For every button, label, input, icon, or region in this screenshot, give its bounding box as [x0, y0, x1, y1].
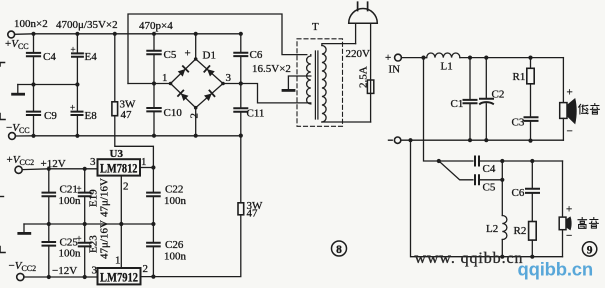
- svg-text:C11: C11: [247, 108, 265, 120]
- capacitor C25: [48, 224, 50, 242]
- secondary center tap wire: [288, 76, 310, 90]
- wire selector to C5: [439, 161, 473, 180]
- svg-text:R1: R1: [513, 71, 526, 83]
- label D1 and +: [185, 48, 216, 62]
- capacitor C4: [475, 157, 479, 166]
- svg-text:C1: C1: [451, 98, 464, 110]
- svg-text:www. qqibb.cn: www. qqibb.cn: [415, 250, 524, 267]
- AC plug: [349, 9, 378, 24]
- svg-text:C4: C4: [483, 163, 496, 175]
- svg-text:+: +: [566, 204, 572, 216]
- speaker woofer (bass): [562, 58, 564, 103]
- terminal +Vcc: [8, 31, 15, 38]
- capacitor C26: [152, 224, 154, 243]
- svg-text:E8: E8: [85, 110, 98, 122]
- label treble speaker: [578, 218, 587, 229]
- bridge bottom lead: [195, 108, 197, 136]
- scan edge artifacts left margin: [0, 63, 5, 67]
- wire tweeter top rail: [479, 160, 563, 162]
- watermark blue: [518, 259, 593, 280]
- svg-text:+: +: [567, 87, 573, 99]
- wire LM7812 output pin1: [140, 167, 153, 169]
- svg-text:−12V: −12V: [52, 265, 77, 277]
- watermark dark: [415, 250, 524, 267]
- bridge pin labels 1 2 3: [162, 72, 232, 119]
- svg-text:4700μ/35V×2: 4700μ/35V×2: [56, 19, 118, 31]
- pin labels LM7812: [90, 156, 147, 193]
- svg-text:E4: E4: [85, 51, 98, 63]
- svg-text:D1: D1: [203, 50, 216, 62]
- wire AC input upper (secondary top to bridge node 1): [128, 14, 307, 84]
- svg-text:1: 1: [141, 156, 147, 168]
- node dot bridge top: [194, 32, 198, 36]
- wire LM7912 input pin2: [141, 215, 241, 277]
- capacitor E8: [76, 85, 78, 112]
- wire plug left lead: [355, 23, 357, 43]
- speaker tweeter (treble): [562, 161, 564, 217]
- label 100n x2: [14, 18, 48, 30]
- svg-text:−: −: [567, 126, 573, 138]
- wire LM7812 gnd pin2 / LM7912 gnd pin1: [120, 176, 122, 268]
- svg-text:16.5V×2: 16.5V×2: [252, 63, 291, 75]
- transformer T dashed box: [297, 39, 343, 127]
- capacitor C1: [469, 58, 471, 100]
- svg-text:1: 1: [115, 255, 121, 267]
- label bass speaker: [579, 104, 588, 114]
- figure number 8: [332, 241, 347, 256]
- terminal -Vcc2: [17, 273, 24, 280]
- wire plug right lead: [370, 23, 372, 122]
- svg-text:C22: C22: [165, 184, 183, 196]
- svg-text:−: −: [566, 230, 572, 242]
- svg-text:3: 3: [90, 156, 96, 168]
- node dot C5 top: [152, 32, 156, 36]
- terminal IN +: [395, 54, 402, 61]
- svg-text:+: +: [77, 234, 82, 244]
- wire crossover top rail: [401, 57, 426, 59]
- svg-text:2: 2: [189, 113, 201, 119]
- capacitor C3: [530, 84, 532, 118]
- regulator U3 LM7812: [98, 159, 141, 175]
- label 220V: [346, 48, 371, 60]
- capacitor C21: [48, 169, 50, 193]
- svg-text:C26: C26: [165, 239, 184, 251]
- svg-text:3: 3: [226, 72, 232, 84]
- diode D1d (- to node3): [204, 91, 215, 102]
- svg-text:9: 9: [587, 245, 593, 257]
- label 16.5V x2: [252, 63, 291, 75]
- primary top lead wire: [322, 44, 356, 46]
- svg-text:100n: 100n: [164, 195, 187, 207]
- capacitor E4: [76, 34, 78, 54]
- svg-text:R2: R2: [514, 225, 527, 237]
- wire tweeter feed from + input: [424, 58, 473, 161]
- inductor L2: [502, 216, 507, 240]
- svg-text:100n×2: 100n×2: [14, 18, 48, 30]
- transformer secondary winding: [307, 55, 311, 104]
- capacitor C9: [33, 85, 35, 112]
- wire top +Vcc rail: [15, 33, 241, 36]
- capacitor C5: [475, 175, 479, 184]
- svg-text:C5: C5: [483, 182, 496, 194]
- svg-text:220V: 220V: [346, 48, 371, 60]
- fuse 2.5A: [367, 80, 373, 93]
- svg-text:C2: C2: [492, 89, 505, 101]
- capacitor C22: [152, 168, 154, 193]
- resistor series 47ohm 3W (+rail): [114, 34, 116, 102]
- svg-text:C4: C4: [43, 51, 56, 63]
- capacitor C10: [153, 84, 155, 109]
- wire mid ground rail: [24, 223, 153, 225]
- wire +12V rail: [22, 168, 97, 171]
- wire tweeter bottom: [562, 230, 564, 257]
- svg-text:qqibb.cn: qqibb.cn: [518, 259, 593, 280]
- regulator LM7912: [98, 268, 141, 284]
- svg-text:C10: C10: [164, 107, 183, 119]
- svg-text:47μ/16V: 47μ/16V: [99, 178, 111, 217]
- wire resistor to LM7812 input: [115, 116, 154, 168]
- svg-text:2.5A: 2.5A: [358, 66, 370, 88]
- node dot R col top: [113, 32, 117, 36]
- resistor R1: [530, 58, 532, 69]
- wire ground rail: [18, 84, 78, 86]
- resistor series 47ohm 3W (-rail): [240, 136, 242, 203]
- transformer core: [315, 51, 318, 119]
- primary bottom lead wire: [322, 121, 371, 123]
- diode D1b (node3 to +): [204, 66, 215, 77]
- svg-text:C9: C9: [44, 110, 57, 122]
- svg-text:470p×4: 470p×4: [139, 20, 173, 32]
- svg-text:100n: 100n: [59, 248, 82, 260]
- pin labels LM7912: [92, 255, 149, 277]
- capacitor C2: [485, 58, 487, 99]
- svg-text:LM7912: LM7912: [100, 270, 138, 284]
- node dot C6 top: [239, 32, 243, 36]
- wire crossover bottom rail: [401, 139, 564, 141]
- svg-text:100n: 100n: [164, 251, 187, 263]
- svg-text:47μ/16V: 47μ/16V: [99, 220, 111, 259]
- svg-text:+: +: [70, 103, 75, 113]
- wire woofer bottom: [562, 118, 564, 140]
- node dot E4 top: [75, 32, 79, 36]
- capacitor C6: [240, 34, 242, 53]
- ground (regulator common): [23, 224, 25, 233]
- wire -Vcc rail: [15, 135, 240, 137]
- capacitor E23: [84, 224, 86, 243]
- svg-text:8: 8: [336, 244, 342, 256]
- ground (left filter): [17, 85, 19, 94]
- svg-text:C3: C3: [512, 117, 525, 129]
- resistor R2: [529, 222, 537, 241]
- capacitor C11: [240, 84, 242, 109]
- svg-text:C6: C6: [512, 187, 525, 199]
- svg-text:+: +: [385, 52, 391, 64]
- svg-text:+: +: [71, 45, 76, 55]
- diode D1c (- to node1): [178, 91, 189, 102]
- svg-text:L2: L2: [486, 223, 498, 235]
- svg-text:U3: U3: [110, 148, 124, 160]
- ground (center tap): [283, 89, 294, 92]
- svg-text:1: 1: [162, 72, 168, 84]
- svg-text:2: 2: [123, 181, 129, 193]
- wire -12V rail: [24, 276, 98, 278]
- terminal IN -: [394, 137, 400, 143]
- svg-text:47: 47: [121, 109, 133, 121]
- svg-text:2: 2: [143, 263, 149, 275]
- wire tweeter bottom rail: [411, 140, 563, 257]
- svg-text:100n: 100n: [59, 195, 82, 207]
- diode D1a (node1 to +): [178, 66, 189, 77]
- wire node 3: [223, 84, 311, 103]
- bridge rectifier D1 diamond: [171, 59, 224, 108]
- capacitor C6 (tweeter): [531, 161, 533, 189]
- capacitor C4: [33, 34, 35, 53]
- svg-text:L1: L1: [441, 61, 453, 73]
- wire top rail after L1: [460, 57, 564, 59]
- svg-text:LM7812: LM7812: [100, 162, 138, 176]
- transformer primary winding: [322, 46, 326, 123]
- svg-text:C6: C6: [250, 49, 263, 61]
- svg-text:C21: C21: [60, 184, 78, 196]
- label +Vcc: [5, 38, 29, 51]
- svg-text:C5: C5: [164, 49, 177, 61]
- svg-text:IN: IN: [389, 64, 401, 76]
- svg-text:+: +: [185, 48, 191, 60]
- inductor L1: [427, 53, 460, 58]
- capacitor C5: [153, 34, 155, 51]
- terminal -Vcc: [9, 133, 16, 140]
- capacitor E19: [84, 169, 86, 193]
- terminal +Vcc2: [15, 166, 22, 173]
- wire C5 output joins rail: [479, 161, 502, 216]
- wire node 1: [128, 83, 171, 85]
- label 470p x4: [139, 20, 173, 32]
- figure number 9: [582, 242, 596, 256]
- svg-text:+: +: [77, 184, 82, 194]
- svg-text:47: 47: [247, 208, 259, 220]
- label 4700u/35V x2: [56, 19, 118, 31]
- svg-text:3: 3: [92, 265, 98, 277]
- svg-text:T: T: [312, 21, 319, 33]
- bridge top lead: [195, 34, 197, 59]
- node dot C4 top: [31, 32, 35, 36]
